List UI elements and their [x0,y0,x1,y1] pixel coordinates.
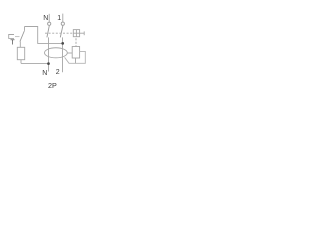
svg-text:N: N [42,70,47,77]
svg-text:2P: 2P [48,81,57,90]
svg-text:2: 2 [56,69,60,76]
svg-text:T: T [10,40,15,47]
svg-text:1: 1 [57,15,61,22]
svg-text:N: N [43,15,48,22]
